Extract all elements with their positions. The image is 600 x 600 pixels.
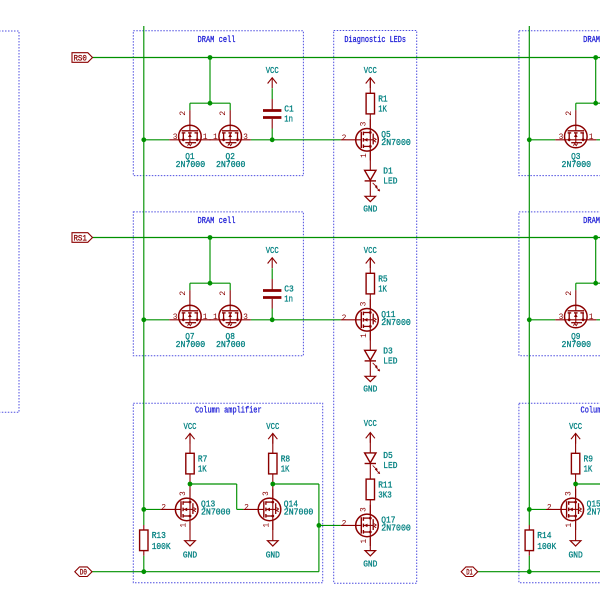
svg-text:1n: 1n <box>284 295 293 305</box>
svg-text:2: 2 <box>179 291 188 296</box>
svg-text:2N7000: 2N7000 <box>587 508 600 518</box>
svg-text:2N7000: 2N7000 <box>562 340 592 350</box>
svg-text:3: 3 <box>179 491 188 496</box>
svg-text:3: 3 <box>173 313 178 322</box>
svg-text:Diagnostic LEDs: Diagnostic LEDs <box>344 35 406 45</box>
svg-text:1K: 1K <box>378 105 387 115</box>
svg-text:DRAM cell: DRAM cell <box>583 35 600 45</box>
svg-text:VCC: VCC <box>364 246 377 256</box>
svg-text:100K: 100K <box>152 542 171 552</box>
svg-text:D3: D3 <box>383 347 393 357</box>
svg-text:VCC: VCC <box>364 66 377 76</box>
svg-text:R1: R1 <box>378 95 388 105</box>
svg-text:2: 2 <box>219 111 228 116</box>
svg-text:2: 2 <box>219 291 228 296</box>
svg-text:1: 1 <box>360 539 369 544</box>
svg-text:2: 2 <box>342 314 347 323</box>
svg-text:1K: 1K <box>378 285 387 295</box>
svg-text:1: 1 <box>262 523 271 528</box>
svg-text:1: 1 <box>180 523 189 528</box>
svg-text:DRAM cell: DRAM cell <box>583 216 600 226</box>
svg-text:2N7000: 2N7000 <box>381 318 411 328</box>
svg-text:Column amplifier: Column amplifier <box>195 406 262 416</box>
svg-text:VCC: VCC <box>266 246 279 256</box>
svg-text:2N7000: 2N7000 <box>216 160 246 170</box>
svg-text:1: 1 <box>203 313 208 322</box>
svg-text:VCC: VCC <box>364 419 377 429</box>
svg-text:2: 2 <box>565 111 574 116</box>
svg-text:1: 1 <box>589 313 594 322</box>
svg-text:GND: GND <box>363 205 377 215</box>
svg-text:R13: R13 <box>152 531 166 541</box>
svg-text:R5: R5 <box>378 275 388 285</box>
svg-text:VCC: VCC <box>266 66 279 76</box>
svg-text:100K: 100K <box>537 542 556 552</box>
svg-text:2N7000: 2N7000 <box>381 138 411 148</box>
svg-text:GND: GND <box>363 560 377 570</box>
svg-text:3: 3 <box>173 133 178 142</box>
svg-text:1: 1 <box>213 133 218 142</box>
svg-text:LED: LED <box>383 461 397 471</box>
svg-text:D5: D5 <box>383 451 393 461</box>
svg-text:D1: D1 <box>383 167 393 177</box>
svg-text:2N7000: 2N7000 <box>201 508 231 518</box>
svg-text:1K: 1K <box>281 465 290 475</box>
svg-text:2N7000: 2N7000 <box>562 160 592 170</box>
svg-text:2N7000: 2N7000 <box>284 508 314 518</box>
svg-text:3K3: 3K3 <box>378 490 392 500</box>
svg-text:3: 3 <box>559 313 564 322</box>
svg-text:3: 3 <box>243 313 248 322</box>
svg-text:LED: LED <box>383 177 397 187</box>
svg-text:2: 2 <box>161 504 166 513</box>
svg-text:3: 3 <box>243 133 248 142</box>
svg-text:VCC: VCC <box>266 422 279 432</box>
svg-text:1n: 1n <box>284 115 293 125</box>
svg-text:Column amplifier: Column amplifier <box>581 406 600 416</box>
svg-text:2N7000: 2N7000 <box>381 524 411 534</box>
svg-text:R11: R11 <box>378 480 392 490</box>
svg-text:RS0: RS0 <box>73 54 87 64</box>
svg-text:2: 2 <box>565 291 574 296</box>
svg-text:C3: C3 <box>284 285 294 295</box>
svg-text:2: 2 <box>342 520 347 529</box>
svg-text:3: 3 <box>262 491 271 496</box>
svg-text:D0: D0 <box>80 568 87 578</box>
svg-text:VCC: VCC <box>184 422 197 432</box>
svg-text:2: 2 <box>342 134 347 143</box>
svg-text:3: 3 <box>559 133 564 142</box>
svg-text:2N7000: 2N7000 <box>216 340 246 350</box>
svg-text:1: 1 <box>565 523 574 528</box>
svg-text:VCC: VCC <box>569 422 582 432</box>
svg-text:3: 3 <box>359 121 368 126</box>
svg-text:1: 1 <box>203 133 208 142</box>
svg-text:GND: GND <box>183 551 197 561</box>
svg-text:GND: GND <box>569 551 583 561</box>
svg-text:2: 2 <box>244 504 249 513</box>
svg-text:C1: C1 <box>284 105 294 115</box>
svg-text:2N7000: 2N7000 <box>176 160 206 170</box>
svg-text:R14: R14 <box>537 531 551 541</box>
svg-text:R8: R8 <box>281 455 291 465</box>
svg-text:1: 1 <box>213 313 218 322</box>
svg-text:R7: R7 <box>198 455 208 465</box>
svg-text:3: 3 <box>565 491 574 496</box>
svg-text:2: 2 <box>547 504 552 513</box>
svg-text:1: 1 <box>360 333 369 338</box>
svg-text:GND: GND <box>363 385 377 395</box>
svg-text:DRAM cell: DRAM cell <box>198 216 236 226</box>
svg-text:2: 2 <box>179 111 188 116</box>
svg-text:1: 1 <box>360 153 369 158</box>
svg-text:R9: R9 <box>584 455 594 465</box>
svg-text:1K: 1K <box>584 465 593 475</box>
svg-text:2N7000: 2N7000 <box>176 340 206 350</box>
svg-text:1K: 1K <box>198 465 207 475</box>
svg-text:D1: D1 <box>466 568 473 578</box>
svg-text:1: 1 <box>589 133 594 142</box>
svg-text:GND: GND <box>266 551 280 561</box>
svg-text:DRAM cell: DRAM cell <box>198 35 236 45</box>
svg-text:RS1: RS1 <box>73 234 87 244</box>
svg-text:3: 3 <box>359 507 368 512</box>
svg-text:LED: LED <box>383 357 397 367</box>
svg-text:3: 3 <box>359 301 368 306</box>
